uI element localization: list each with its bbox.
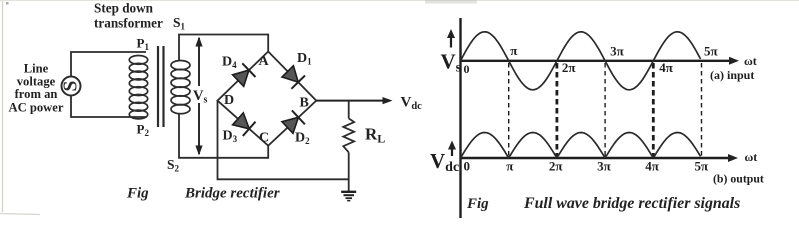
- wire: primary loop left/top/bottom: [71, 52, 146, 117]
- svg-text:Linevoltagefrom anAC power: Linevoltagefrom anAC power: [9, 62, 64, 115]
- svg-text:Step down: Step down: [94, 1, 154, 16]
- svg-text:4π: 4π: [659, 60, 673, 75]
- input axis (a): [461, 57, 740, 65]
- svg-text:3π: 3π: [610, 44, 624, 59]
- Vs measurement arrow: [195, 37, 202, 156]
- dashed gridline pi: [508, 63, 510, 158]
- Vdc axis up arrow: [448, 141, 456, 157]
- svg-text:Fig: Fig: [126, 186, 149, 202]
- svg-text:3π: 3π: [597, 159, 611, 174]
- svg-text:S2: S2: [167, 157, 180, 174]
- diode D2: [282, 110, 305, 133]
- svg-text:4π: 4π: [645, 159, 659, 174]
- svg-text:D2: D2: [295, 131, 310, 147]
- dashed gridline 4pi: [652, 63, 655, 158]
- wire: S1 to node A: [179, 35, 268, 61]
- svg-text:S1: S1: [173, 15, 186, 32]
- svg-text:B: B: [300, 95, 309, 110]
- diode D4: [233, 63, 256, 86]
- Vs axis up arrow: [447, 29, 455, 48]
- wire: S2 to node C: [179, 113, 268, 158]
- svg-text:Vdc: Vdc: [430, 149, 459, 175]
- wire: node B output to Vdc: [316, 97, 392, 104]
- AC source (line voltage): [61, 77, 82, 96]
- svg-text:ωt: ωt: [744, 54, 757, 68]
- svg-text:P1: P1: [137, 36, 150, 53]
- dashed gridline 5pi: [701, 63, 703, 158]
- transformer core: [158, 46, 164, 127]
- svg-text:C: C: [259, 130, 269, 145]
- svg-text:π: π: [510, 43, 517, 58]
- ground: [341, 192, 356, 201]
- svg-text:D3: D3: [223, 129, 238, 145]
- svg-text:Full wave bridge rectifier sig: Full wave bridge rectifier signals: [523, 195, 740, 212]
- svg-text:(b) output: (b) output: [713, 172, 764, 186]
- svg-text:Fig: Fig: [466, 196, 489, 212]
- svg-text:D1: D1: [297, 51, 312, 67]
- diode D3: [233, 113, 256, 136]
- dashed gridline 2pi: [556, 63, 559, 158]
- resistor RL: [343, 118, 354, 152]
- svg-text:5π: 5π: [704, 44, 718, 59]
- wire: bridge diamond edges: [218, 52, 317, 146]
- transformer secondary winding: [171, 61, 190, 114]
- wire: node D to ground rail: [218, 101, 349, 180]
- svg-text:ωt: ωt: [745, 150, 758, 164]
- svg-text:Vdc: Vdc: [401, 94, 423, 112]
- input sine waveform Vs: [461, 32, 701, 90]
- svg-text:2π: 2π: [549, 159, 563, 174]
- wire: junction to RL: [348, 101, 350, 119]
- output axis (b): [461, 154, 739, 162]
- svg-text:5π: 5π: [695, 159, 709, 174]
- label Vs: [192, 86, 211, 106]
- svg-text:D: D: [224, 93, 234, 108]
- wire: RL to ground: [348, 152, 350, 191]
- svg-text:0: 0: [464, 62, 470, 76]
- svg-text:2π: 2π: [562, 60, 576, 75]
- waveform vertical axis: [459, 18, 461, 218]
- transformer primary winding: [129, 56, 147, 119]
- svg-text:Bridge rectifier: Bridge rectifier: [184, 186, 280, 202]
- svg-text:0: 0: [464, 159, 471, 174]
- svg-text:transformer: transformer: [94, 15, 163, 30]
- svg-text:RL: RL: [365, 125, 385, 146]
- svg-text:A: A: [259, 54, 270, 69]
- svg-text:P2: P2: [137, 122, 150, 139]
- diode D1: [282, 66, 305, 89]
- svg-text:S: S: [61, 80, 82, 91]
- output rectified waveform Vdc: [461, 133, 701, 159]
- svg-text:(a) input: (a) input: [710, 68, 754, 82]
- svg-text:D4: D4: [222, 55, 237, 71]
- dashed gridline 3pi: [604, 63, 606, 158]
- svg-text:π: π: [506, 159, 513, 174]
- svg-text:Vs: Vs: [441, 49, 462, 75]
